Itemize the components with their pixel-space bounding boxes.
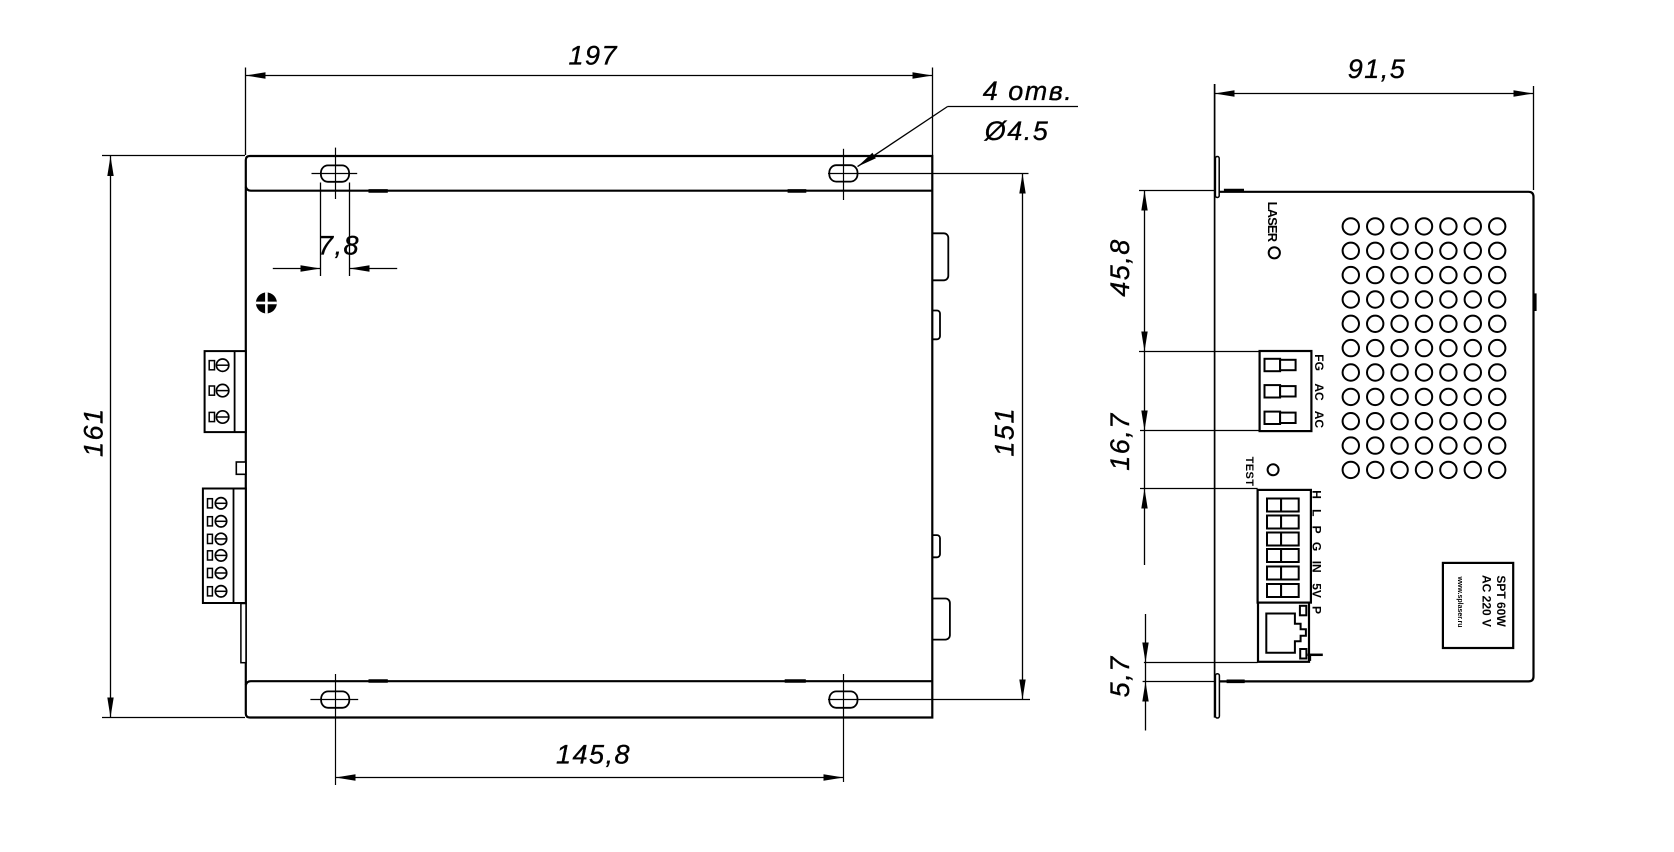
- RJ45 jack: [1266, 614, 1306, 653]
- thin rail below 6-pin block: [241, 604, 246, 663]
- weld dash front bottom: [1227, 679, 1245, 683]
- top view: side cutout bump B: [926, 311, 940, 340]
- leader 4 holes: [948, 106, 1078, 108]
- svg-text:197: 197: [569, 41, 619, 71]
- front view: body outline: [1215, 192, 1534, 682]
- front 6-pin terminal y=590.5: [1267, 584, 1281, 597]
- weld dash front top: [1224, 189, 1244, 193]
- front 6-pin terminal y=539.0: [1267, 533, 1281, 546]
- svg-text:91,5: 91,5: [1348, 54, 1407, 84]
- svg-text:L: L: [1310, 509, 1324, 516]
- svg-text:G: G: [1310, 542, 1324, 551]
- dimension 91,5: [1533, 86, 1535, 190]
- front view: flange tab bottom: [1215, 674, 1219, 718]
- TEST button: [1268, 464, 1279, 475]
- dimension 145,8: [336, 777, 844, 779]
- mounting slot top-left: [321, 165, 349, 181]
- RJ45 pin tick: [1308, 654, 1323, 657]
- weld dash bottom-left: [369, 679, 388, 683]
- front 3-pin terminal y=391.3: [1265, 385, 1281, 397]
- front 6-pin terminal y=505.0: [1267, 499, 1281, 512]
- svg-text:TEST: TEST: [1243, 457, 1255, 487]
- 6-pin terminal row y=573.0: [208, 568, 213, 577]
- dimension 151: [1022, 174, 1024, 700]
- ventilation holes grid 7x11: [1343, 218, 1506, 478]
- front 6-pin terminal block: [1258, 490, 1311, 603]
- svg-text:AC: AC: [1312, 383, 1326, 401]
- 6-pin terminal row y=521.3: [208, 517, 213, 526]
- weld dash bottom-right: [785, 679, 806, 683]
- RJ45 pin hole bottom: [1300, 649, 1306, 659]
- svg-text:5V: 5V: [1310, 583, 1324, 598]
- mounting slot bottom-right: [829, 691, 857, 707]
- top view: side cutout bump A: [926, 233, 948, 280]
- svg-text:P: P: [1310, 606, 1324, 614]
- front 3-pin terminal y=417.8: [1265, 412, 1281, 424]
- svg-text:4 отв.: 4 отв.: [983, 76, 1074, 106]
- top view: outer flange outline: [246, 156, 933, 718]
- terminal block 3-pin (top view): [205, 351, 246, 432]
- dimension 5,7: [1145, 614, 1147, 731]
- front 3-pin terminal block: [1260, 351, 1312, 431]
- rating label box: [1443, 563, 1513, 648]
- svg-text:www.splaser.ru: www.splaser.ru: [1456, 575, 1463, 627]
- front 6-pin terminal y=573.0: [1267, 567, 1281, 580]
- dimension 197: [245, 68, 247, 156]
- screw head symbol: [256, 292, 277, 313]
- top view: side cutout bump D: [926, 599, 950, 640]
- svg-text:IN: IN: [1310, 561, 1324, 573]
- svg-text:45,8: 45,8: [1105, 238, 1135, 297]
- front view: flange tab top: [1215, 157, 1219, 198]
- top view: side cutout bump C: [926, 535, 940, 557]
- svg-text:145,8: 145,8: [556, 740, 631, 770]
- svg-text:161: 161: [79, 407, 109, 457]
- mounting slot bottom-left: [321, 691, 349, 707]
- terminal block 6-pin (top view): [203, 489, 246, 604]
- 6-pin terminal row y=503.3: [208, 499, 213, 508]
- 3-pin terminal row y=365.2: [209, 361, 214, 370]
- side tick right edge: [1534, 293, 1536, 311]
- weld dash top-left: [369, 189, 388, 193]
- RJ45 connector block: [1258, 603, 1309, 662]
- LASER led: [1269, 247, 1280, 258]
- slot top-left centerlines: [335, 148, 337, 199]
- top view: top flange bend line: [246, 187, 933, 191]
- svg-text:16,7: 16,7: [1105, 412, 1135, 471]
- 6-pin terminal row y=538.9: [208, 534, 213, 543]
- slot bottom-right centerlines: [843, 674, 845, 782]
- top view: bottom flange bend line: [246, 681, 933, 685]
- dimension 45,8: [1139, 190, 1214, 192]
- svg-text:SPT 60W: SPT 60W: [1494, 575, 1508, 627]
- 3-pin terminal row y=417.0: [209, 412, 214, 421]
- svg-text:P: P: [1310, 526, 1324, 534]
- svg-text:FG: FG: [1312, 354, 1326, 371]
- RJ45 pin hole top: [1300, 606, 1306, 616]
- front view: flange edge line: [1214, 84, 1216, 718]
- svg-text:5,7: 5,7: [1105, 655, 1135, 697]
- 3-pin terminal row y=390.6: [209, 386, 214, 395]
- svg-text:H: H: [1310, 490, 1324, 499]
- slot top-right centerlines: [843, 149, 845, 200]
- dimension 16,7: [1140, 430, 1260, 432]
- front 6-pin terminal y=522.0: [1267, 516, 1281, 529]
- dimension 161: [102, 155, 245, 157]
- front 3-pin terminal y=365.0: [1265, 359, 1281, 371]
- mounting slot top-right: [829, 165, 857, 181]
- svg-text:Ø4.5: Ø4.5: [984, 116, 1050, 146]
- svg-text:151: 151: [990, 407, 1020, 457]
- svg-text:LASER: LASER: [1265, 202, 1280, 243]
- 6-pin terminal row y=591.3: [208, 587, 213, 596]
- front 6-pin terminal y=555.5: [1267, 549, 1281, 562]
- svg-text:AC: AC: [1312, 411, 1326, 429]
- dimension 7,8: [320, 183, 322, 277]
- 6-pin terminal row y=555.4: [208, 551, 213, 560]
- weld dash top-right: [788, 189, 807, 193]
- svg-text:AC 220 V: AC 220 V: [1479, 575, 1493, 627]
- svg-text:7,8: 7,8: [318, 231, 360, 261]
- slot bottom-left centerlines: [335, 674, 337, 785]
- small tab on left edge: [236, 462, 246, 474]
